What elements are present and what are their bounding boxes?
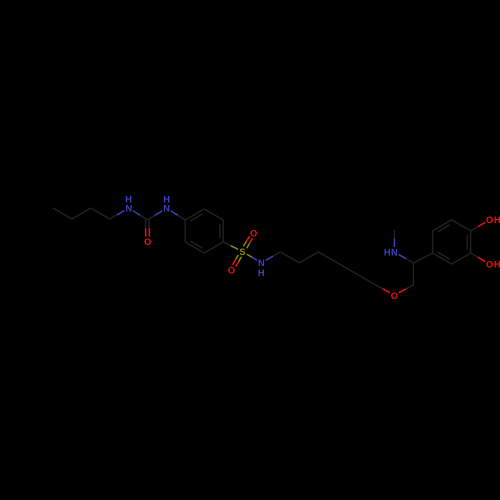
bond O2-Cb — [399, 285, 414, 293]
ring2 bond R1-R2 — [470, 231, 472, 253]
ring1 bond A5-A6 — [185, 242, 204, 253]
ring1 bond A2-A3 — [204, 209, 223, 220]
ring2 bond R0-R1 — [452, 220, 471, 231]
bond C1-N1 — [110, 211, 125, 220]
bond C8-C9 — [337, 263, 356, 274]
bond N1-C(=O) — [133, 211, 147, 220]
svg-text:H: H — [384, 247, 391, 257]
svg-text:O: O — [486, 215, 493, 225]
bond butyl C3-C2 — [72, 208, 91, 219]
svg-text:N: N — [125, 203, 132, 213]
svg-text:H: H — [494, 259, 500, 269]
svg-text:N: N — [258, 258, 265, 268]
bond ring2-OH lower — [471, 253, 486, 262]
bond butyl C2-C1 — [91, 208, 110, 219]
bond C10-O2 — [375, 285, 390, 293]
double bond S=O lower — [233, 255, 242, 267]
svg-text:N: N — [391, 247, 398, 257]
double bond S=O upper — [244, 236, 253, 248]
ring2 bond R5-R0 — [433, 220, 452, 231]
bond Ca-N4 — [399, 255, 414, 264]
bond ring-S — [223, 242, 238, 249]
bond N4-CH3 — [393, 230, 395, 247]
svg-text:H: H — [258, 268, 265, 278]
bond butyl C4-C3 — [53, 208, 72, 219]
svg-text:O: O — [144, 237, 151, 247]
bond C5-C6 — [280, 252, 299, 263]
bond C7-C8 — [318, 252, 337, 263]
svg-text:H: H — [494, 215, 500, 225]
svg-text:S: S — [239, 247, 245, 257]
bond S-N3 — [247, 254, 257, 260]
bond C(=O)-N2 — [147, 211, 162, 220]
svg-text:O: O — [391, 291, 398, 301]
svg-text:O: O — [228, 265, 235, 275]
svg-text:O: O — [250, 228, 257, 238]
ring2 inner double R3=R4 — [438, 252, 450, 259]
ring1 inner double A5=A6 — [190, 241, 202, 248]
bond N3-C5 — [266, 252, 281, 261]
ring1 inner double A3=A4 — [219, 224, 221, 238]
ring1 inner double A1=A2 — [190, 214, 202, 221]
bond Cb-Ca — [412, 263, 414, 285]
ring2 inner double R1=R2 — [466, 235, 468, 249]
svg-text:O: O — [486, 259, 493, 269]
bond C6-C7 — [299, 252, 318, 263]
bond ring2-OH upper — [471, 222, 486, 231]
ring2 bond R4-R5 — [432, 231, 434, 253]
svg-text:N: N — [163, 204, 170, 214]
ring2 inner double R5=R0 — [438, 225, 450, 232]
bond C9-C10 — [356, 274, 375, 285]
ring1 bond A6-A1 — [184, 220, 186, 242]
bond Ca-ring2 — [413, 253, 432, 263]
ring2 bond R2-R3 — [452, 253, 471, 264]
ring1 bond A3-A4 — [222, 220, 224, 242]
double bond C=O (urea) — [146, 220, 150, 237]
ring1 bond A1-A2 — [185, 209, 204, 220]
ring2 bond R3-R4 — [433, 253, 452, 264]
bond N2-ring — [171, 211, 185, 220]
ring1 bond A4-A5 — [204, 242, 223, 253]
